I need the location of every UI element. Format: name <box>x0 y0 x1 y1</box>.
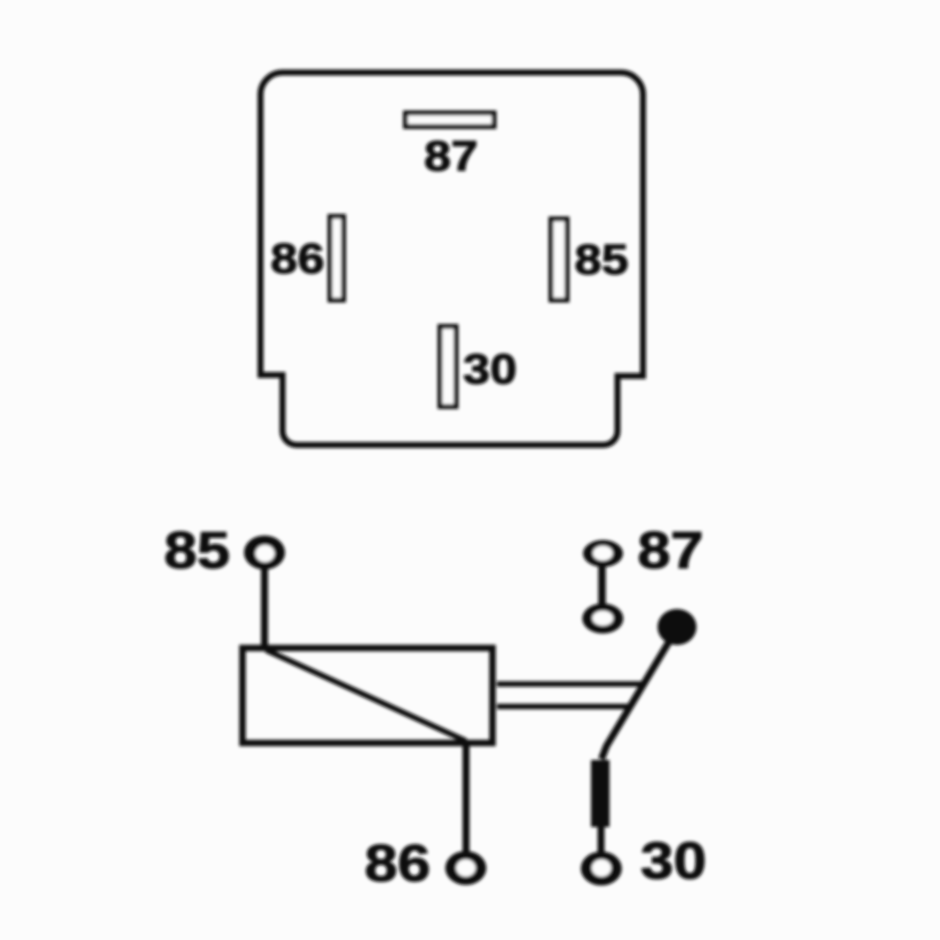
terminal 30 <box>581 852 622 886</box>
wire 87 to fixed contact <box>598 566 606 606</box>
contact resistor bar <box>591 760 610 827</box>
pin slot 87 (horizontal blade) <box>406 113 495 127</box>
fixed contact 87 <box>582 604 623 634</box>
coil (rectangle with diagonal) <box>243 648 493 743</box>
svg-text:87: 87 <box>638 522 704 580</box>
pin slot 86 (vertical blade) <box>330 217 344 301</box>
relay body outline (bottom view) <box>261 73 644 446</box>
armature arm <box>602 640 671 759</box>
armature pivot dot <box>658 609 697 645</box>
linkage upper line <box>497 681 645 687</box>
svg-text:86: 86 <box>365 835 431 893</box>
svg-text:85: 85 <box>575 236 629 284</box>
pin slot 30 (vertical blade) <box>440 327 456 407</box>
terminal 85 <box>244 536 285 570</box>
svg-text:30: 30 <box>641 833 707 891</box>
linkage lower line <box>497 704 631 710</box>
svg-text:87: 87 <box>424 133 478 181</box>
svg-text:30: 30 <box>463 346 517 394</box>
wire bar to 30 <box>598 826 605 853</box>
terminal 87 <box>583 540 623 567</box>
svg-text:86: 86 <box>271 235 325 283</box>
terminal 86 <box>445 851 486 885</box>
wire 85 to coil <box>261 569 268 649</box>
coil diagonal <box>266 650 466 741</box>
svg-text:85: 85 <box>164 522 230 580</box>
wire coil to 86 <box>463 743 470 852</box>
pin slot 85 (vertical blade) <box>551 219 567 300</box>
